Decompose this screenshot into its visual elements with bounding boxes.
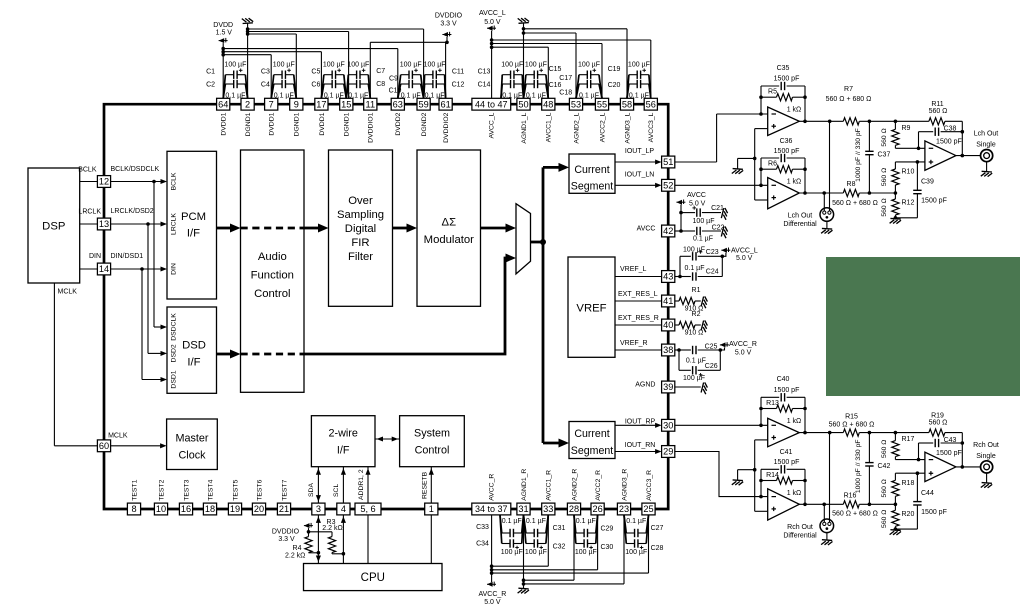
svg-text:100 µF: 100 µF — [323, 62, 345, 69]
label C26 — [705, 363, 718, 370]
wire DGND stem to pin 2 — [246, 24, 250, 99]
svg-text:100 µF: 100 µF — [628, 62, 650, 69]
svg-text:1500 pF: 1500 pF — [936, 139, 962, 146]
label BCLK — [78, 166, 97, 173]
op-amp U5 — [768, 489, 800, 520]
svg-text:C27: C27 — [651, 525, 664, 532]
svg-text:60: 60 — [99, 441, 109, 451]
wire DSDCLK branch — [154, 182, 167, 330]
svg-text:C14: C14 — [478, 82, 491, 89]
capacitors C9 C10 100µF/0.1µF (pins 63-59) — [398, 62, 424, 100]
svg-text:I/F: I/F — [187, 357, 200, 369]
svg-text:C29: C29 — [600, 526, 613, 533]
svg-text:AVCC: AVCC — [637, 225, 656, 232]
label EXT_RES_R — [618, 315, 659, 322]
svg-text:LRCLK/DSD2: LRCLK/DSD2 — [111, 208, 154, 215]
svg-text:Rch Out: Rch Out — [973, 442, 999, 449]
svg-text:C39: C39 — [921, 179, 934, 186]
svg-text:560 Ω: 560 Ω — [881, 440, 888, 458]
pin 1 (RESETB) — [425, 503, 438, 515]
wire VREF_R to pin 38 — [615, 349, 662, 351]
ground at R1 — [701, 296, 708, 308]
svg-text:C42: C42 — [878, 463, 891, 470]
connector Rch Out Differential — [820, 519, 834, 540]
capacitor C44 1500 pF — [895, 473, 921, 529]
capacitors C13 C14 100µF/0.1µF (pins 44to47-50) — [501, 62, 524, 100]
ground at pin 39 — [701, 382, 708, 394]
pin 3 (SDA) — [312, 503, 325, 515]
op-amp U1 — [768, 107, 800, 136]
wire AVCC_L bus to pin 55 — [492, 44, 602, 99]
svg-text:AVCC3_L: AVCC3_L — [648, 112, 655, 142]
power tap AVCC_R (C25) — [720, 342, 729, 350]
power tap DVDD — [219, 38, 228, 43]
pin label TEST7 — [281, 479, 288, 500]
resistor R9 560Ω — [892, 121, 925, 150]
pin label TEST5 — [232, 479, 239, 500]
svg-text:Single: Single — [976, 141, 996, 148]
svg-text:560 Ω + 680 Ω: 560 Ω + 680 Ω — [832, 511, 878, 518]
block 2-wire I/F — [311, 416, 375, 467]
wire plus node (Lch) — [895, 160, 925, 164]
svg-text:R10: R10 — [902, 168, 915, 175]
label C17 — [559, 75, 572, 82]
label 1500 pF (C44) — [921, 509, 947, 516]
svg-text:Single: Single — [976, 453, 996, 460]
svg-text:R13: R13 — [766, 400, 779, 407]
wire Lch single output — [956, 154, 981, 158]
label 1500 pF (C43) — [936, 450, 962, 457]
label C27 — [651, 525, 664, 532]
svg-text:IOUT_LN: IOUT_LN — [625, 171, 655, 178]
block VREF — [568, 257, 615, 357]
svg-text:IOUT_LP: IOUT_LP — [625, 148, 655, 155]
svg-text:RESETB: RESETB — [422, 471, 429, 499]
svg-text:Rch Out: Rch Out — [787, 524, 813, 531]
ground Rch differential — [821, 540, 832, 545]
capacitors C11 C12 100µF/0.1µF (pins 59-61) — [424, 62, 446, 100]
ground R12 (Lch) — [890, 218, 901, 223]
svg-text:560 Ω: 560 Ω — [881, 128, 888, 146]
wire AVCC_L bus to pin 48 — [492, 47, 549, 98]
capacitors C33 C34 0.1µF/100µF (pins 34to37-31) — [500, 515, 524, 556]
label 560 Ω + 680 Ω (R15) — [829, 421, 875, 428]
wire to Lch Current Segment (thick arrow) — [543, 163, 569, 172]
label C38 — [944, 125, 957, 132]
wire AGND_R bus to pin 23 — [524, 515, 625, 584]
svg-text:AVCC: AVCC — [687, 192, 706, 199]
wire FIR to DSM (thick arrow) — [393, 224, 418, 233]
wire DVDD bus to pin 63 — [223, 49, 398, 99]
label 1000 pF // 330 pF (C37) — [855, 128, 862, 182]
svg-text:1 kΩ: 1 kΩ — [787, 490, 802, 497]
wire Lch differential drops — [824, 121, 829, 211]
svg-text:AGND3_R: AGND3_R — [621, 469, 628, 501]
svg-text:3.3 V: 3.3 V — [278, 536, 295, 543]
label C43 — [944, 437, 957, 444]
wire IOUT_LP to pin 51 — [615, 159, 662, 164]
label 560 Ω (R12) — [881, 198, 888, 216]
svg-text:0.1 µF: 0.1 µF — [693, 236, 713, 243]
svg-text:MCLK: MCLK — [108, 432, 128, 439]
label R5 — [768, 89, 777, 96]
label C29 — [600, 526, 613, 533]
pin 55 (AVCC2_L) — [595, 98, 608, 110]
svg-text:AVCC_R: AVCC_R — [478, 591, 506, 598]
pin 9 (DGND1) — [290, 98, 303, 110]
svg-text:C28: C28 — [651, 545, 664, 552]
svg-text:DVDD: DVDD — [213, 22, 233, 29]
svg-text:R7: R7 — [844, 86, 853, 93]
label C35 — [777, 65, 790, 72]
pin 14 (DIN) — [97, 263, 110, 275]
svg-text:MCLK: MCLK — [58, 288, 78, 295]
label R15 — [845, 413, 858, 420]
svg-text:LRCLK: LRCLK — [171, 213, 178, 235]
label AVCC_L 5.0 V supply — [479, 10, 506, 26]
svg-text:SCL: SCL — [333, 484, 340, 497]
label AVCC_R 5.0 V (C25) — [729, 341, 757, 357]
svg-text:AVCC_R: AVCC_R — [729, 341, 757, 348]
pin label DVDDIO2 — [443, 112, 450, 142]
pin label AVCC2_R — [595, 470, 602, 501]
wire AVCC_R stem from pins 34 to 37 — [490, 515, 494, 582]
pin label AGND2_R — [571, 469, 578, 501]
svg-text:DSDCLK: DSDCLK — [171, 313, 178, 341]
svg-text:1500 pF: 1500 pF — [774, 76, 800, 83]
ground analog Lch (top) — [518, 18, 529, 23]
pin label TEST4 — [207, 479, 214, 500]
wire U5 inverting node — [759, 469, 763, 498]
svg-text:I/F: I/F — [337, 444, 350, 456]
svg-text:C44: C44 — [921, 490, 934, 497]
svg-text:Control: Control — [254, 288, 290, 300]
svg-text:DIN: DIN — [89, 253, 101, 260]
pin 17 (DVDD1) — [315, 98, 328, 110]
wire to Rch Current Segment (thick arrow) — [543, 439, 569, 448]
svg-text:R14: R14 — [766, 472, 779, 479]
capacitors C15 C16 100µF/0.1µF (pins 50-48) — [524, 62, 549, 100]
label IOUT_RP — [625, 418, 656, 425]
svg-text:61: 61 — [440, 99, 450, 109]
svg-text:1500 pF: 1500 pF — [774, 387, 800, 394]
svg-text:910 Ω: 910 Ω — [685, 329, 704, 336]
label DIN — [89, 253, 101, 260]
pin 11 (DVDDIO1) — [364, 98, 377, 110]
svg-text:560 Ω: 560 Ω — [881, 168, 888, 186]
svg-text:43: 43 — [663, 272, 673, 282]
label C32 — [553, 544, 566, 551]
pin 38 — [662, 344, 675, 356]
pin 29 — [662, 446, 675, 458]
wire AGND_L bus to pin 58 — [524, 29, 628, 99]
label DIN/DSD1 — [111, 253, 144, 260]
pin label AVCC1_L — [546, 112, 553, 142]
resistor R15 560Ω+680Ω — [843, 429, 859, 436]
pin label DGND1 — [344, 112, 351, 136]
label 1 kΩ (R14) — [787, 490, 802, 497]
block DSP — [28, 168, 80, 283]
pin label DVDDIO1 — [368, 112, 375, 142]
mux selector — [516, 204, 531, 274]
label 560 Ω (R20) — [881, 510, 888, 528]
pin label TEST1 — [131, 479, 138, 500]
label AGND at pin 39 — [635, 381, 655, 388]
svg-text:Lch Out: Lch Out — [974, 130, 999, 137]
svg-text:560 Ω: 560 Ω — [881, 479, 888, 497]
ground op-amp bias (Lch) — [732, 169, 743, 174]
wire Rch single output — [956, 465, 981, 469]
svg-text:AVCC2_R: AVCC2_R — [595, 470, 602, 501]
label R10 — [902, 168, 915, 175]
wire RESETB to CPU — [430, 515, 432, 564]
svg-text:1: 1 — [429, 504, 434, 514]
resistor R2 910Ω — [675, 321, 701, 328]
wire U2 inverting node — [759, 158, 763, 187]
svg-text:0.1 µF: 0.1 µF — [526, 518, 546, 525]
capacitor C42 1000pF//330pF — [865, 433, 873, 505]
svg-text:C37: C37 — [878, 151, 891, 158]
svg-text:C35: C35 — [777, 65, 790, 72]
power tap AVCC — [676, 200, 685, 205]
svg-text:C20: C20 — [608, 82, 621, 89]
pin 30 — [662, 419, 675, 431]
svg-text:59: 59 — [418, 99, 428, 109]
label R17 — [902, 436, 915, 443]
svg-text:560 Ω: 560 Ω — [881, 198, 888, 216]
svg-text:C6: C6 — [311, 82, 320, 89]
connector Lch Out Differential — [820, 208, 834, 229]
label 560 Ω (R19) — [929, 420, 948, 427]
pin label DVDD1 — [319, 112, 326, 135]
label R9 — [902, 125, 911, 132]
wire DGND bus to pin 15 — [248, 32, 349, 99]
label 560 Ω (R10) — [881, 168, 888, 186]
label IOUT_RN — [625, 442, 656, 449]
svg-text:0.1 µF: 0.1 µF — [685, 265, 705, 272]
label C24 — [706, 268, 719, 275]
label 1 kΩ (R5) — [787, 107, 802, 114]
label 2.2 kΩ (R4) — [285, 552, 305, 559]
label Lch Out Single — [974, 130, 999, 148]
svg-text:TEST5: TEST5 — [232, 479, 239, 500]
label R12 — [902, 199, 915, 206]
wire AVCC_R bus to pin 26 — [492, 515, 598, 570]
svg-text:C25: C25 — [705, 344, 718, 351]
pin label AVCC2_L — [599, 112, 606, 142]
label C22 — [712, 224, 725, 231]
wire pin 43 node — [675, 275, 682, 279]
capacitor C38 1500 pF — [919, 128, 965, 149]
op-amp U4 — [768, 418, 800, 447]
resistor R11 560Ω — [929, 118, 945, 125]
label Rch Out Single — [973, 442, 999, 460]
label C10 — [389, 87, 402, 94]
capacitors C5 C6 100µF/0.1µF (pins 17-15) — [321, 62, 346, 100]
svg-text:Differential: Differential — [783, 221, 817, 228]
pin 16 (TEST3) — [179, 503, 192, 515]
svg-text:2.2 kΩ: 2.2 kΩ — [322, 525, 342, 532]
svg-text:C15: C15 — [549, 66, 562, 73]
svg-text:28: 28 — [569, 504, 579, 514]
svg-text:Current: Current — [574, 428, 609, 440]
pin 19 (TEST5) — [228, 503, 241, 515]
svg-text:C3: C3 — [261, 69, 270, 76]
label 100 µF (C23) — [683, 247, 705, 254]
connector Lch Out Single — [981, 150, 993, 172]
wire PCM to AFC (thick arrow) — [217, 224, 241, 233]
label C44 — [921, 490, 934, 497]
ground analog Rch (bottom) — [518, 588, 529, 593]
svg-text:C10: C10 — [389, 87, 402, 94]
svg-text:AGND2_R: AGND2_R — [571, 469, 578, 501]
wire MCLK from DSP to pin 60 — [54, 283, 97, 446]
wire DGND bus to pin 59 — [248, 29, 424, 98]
svg-text:Segment: Segment — [571, 445, 613, 457]
label 560 Ω + 680 Ω (R7) — [826, 96, 872, 103]
pin label DGND2 — [421, 112, 428, 136]
svg-text:5.0 V: 5.0 V — [735, 349, 752, 356]
svg-text:25: 25 — [643, 504, 653, 514]
wire pin 52 to op-amp U2 — [675, 184, 768, 186]
svg-text:DVDD1: DVDD1 — [319, 112, 326, 135]
label 1500 pF (C39) — [921, 197, 947, 204]
svg-text:CPU: CPU — [361, 572, 385, 584]
svg-text:12: 12 — [99, 177, 109, 187]
wire DSD path to mux (thick) — [304, 254, 516, 355]
svg-text:VREF_L: VREF_L — [620, 266, 647, 273]
svg-text:C2: C2 — [206, 82, 215, 89]
label 0.1 µF (C24) — [685, 265, 705, 272]
svg-text:C16: C16 — [549, 82, 562, 89]
svg-text:560 Ω + 680 Ω: 560 Ω + 680 Ω — [829, 421, 875, 428]
svg-text:21: 21 — [279, 504, 289, 514]
svg-text:15: 15 — [341, 99, 351, 109]
pin 43 — [662, 271, 675, 283]
svg-text:40: 40 — [663, 320, 673, 330]
label AVCC at pin 42 — [637, 225, 656, 232]
svg-text:AVCC3_R: AVCC3_R — [646, 470, 653, 501]
ground digital (top) — [242, 18, 253, 23]
resistor R6 1 kΩ — [761, 166, 805, 173]
svg-text:5, 6: 5, 6 — [360, 504, 375, 514]
capacitor C39 1500 pF — [895, 162, 921, 218]
wire C35/R5 to output — [803, 86, 807, 123]
svg-text:9: 9 — [294, 99, 299, 109]
wire DSM to mux (thick arrow) — [481, 224, 517, 233]
svg-text:DIN/DSD1: DIN/DSD1 — [111, 253, 144, 260]
label C11 — [452, 69, 464, 76]
label C34 — [476, 541, 489, 548]
svg-text:AVCC_L: AVCC_L — [731, 247, 758, 254]
ground Rch single — [981, 483, 992, 488]
svg-text:5.0 V: 5.0 V — [736, 255, 753, 262]
svg-text:Function: Function — [251, 270, 294, 282]
label C2 — [206, 82, 215, 89]
svg-text:C24: C24 — [706, 268, 719, 275]
pin 15 (DGND1) — [340, 98, 353, 110]
wire plus node (Rch) — [895, 471, 925, 475]
svg-text:8: 8 — [131, 504, 136, 514]
svg-text:R2: R2 — [692, 311, 701, 318]
svg-text:ΔΣ: ΔΣ — [442, 217, 457, 229]
label BCLK/DSDCLK — [111, 166, 160, 173]
label R20 — [902, 511, 915, 518]
label R8 — [847, 181, 856, 188]
svg-text:1.5 V: 1.5 V — [216, 30, 233, 37]
svg-text:560 Ω + 680 Ω: 560 Ω + 680 Ω — [826, 96, 872, 103]
label C7 — [376, 68, 385, 75]
wire DVDDIO bus to pin 11 — [370, 42, 447, 98]
svg-text:100 µF: 100 µF — [347, 62, 369, 69]
label C36 — [780, 138, 793, 145]
svg-text:AVCC1_R: AVCC1_R — [546, 470, 553, 501]
block Current Segment Rch — [569, 422, 615, 459]
pin label DGND1 — [245, 112, 252, 136]
block CPU — [304, 564, 443, 591]
pin label DSD2 (DSD) — [171, 344, 178, 362]
capacitor C35 1500 pF — [761, 82, 805, 90]
label R18 — [902, 480, 915, 487]
svg-text:Audio: Audio — [258, 251, 287, 263]
svg-text:10: 10 — [156, 504, 166, 514]
resistor R8 560Ω+680Ω — [843, 189, 859, 196]
svg-text:1 kΩ: 1 kΩ — [787, 418, 802, 425]
svg-text:C19: C19 — [608, 66, 621, 73]
svg-text:Lch Out: Lch Out — [788, 213, 813, 220]
ground at R2 — [701, 320, 708, 332]
wire Lch bottom rail — [799, 191, 897, 195]
power tap DVDDIO — [442, 32, 451, 37]
label Lch Out Differential — [783, 213, 817, 229]
wire Rch bottom rail — [799, 503, 897, 507]
wire LRCLK/DSD2 to PCM I/F — [111, 221, 167, 226]
svg-text:1000 pF // 330 pF: 1000 pF // 330 pF — [855, 128, 862, 182]
label C4 — [261, 82, 270, 89]
capacitors C29 C30 0.1µF/100µF (pins 28-26) — [574, 515, 598, 556]
wire AVCC_L stem to pins 44 to 47 — [490, 31, 494, 99]
pin label SDA — [308, 483, 315, 497]
svg-text:C34: C34 — [476, 541, 489, 548]
label 560 Ω + 680 Ω (R16) — [832, 511, 878, 518]
wire pin 29 to op-amp U5 — [675, 452, 768, 497]
block System Control — [400, 416, 465, 467]
pin 63 (DVDD2) — [391, 98, 404, 110]
svg-text:100 µF: 100 µF — [501, 549, 523, 556]
label R19 — [931, 412, 944, 419]
svg-text:100 µF: 100 µF — [501, 62, 523, 69]
svg-text:100 µF: 100 µF — [224, 62, 246, 69]
svg-text:C30: C30 — [600, 544, 613, 551]
pin 39 — [662, 381, 675, 393]
pin label SCL — [333, 484, 340, 497]
resistor R10 560Ω — [892, 162, 899, 193]
label C25 — [705, 344, 718, 351]
pin 13 (LRCLK) — [97, 218, 110, 230]
svg-text:100 µF: 100 µF — [575, 549, 597, 556]
resistor R5 1 kΩ — [761, 94, 805, 101]
svg-text:TEST4: TEST4 — [207, 479, 214, 500]
svg-text:560 Ω: 560 Ω — [929, 108, 948, 115]
svg-text:C8: C8 — [376, 81, 385, 88]
capacitor C22 0.1µF — [681, 227, 721, 235]
svg-text:0.1 µF: 0.1 µF — [576, 518, 596, 525]
label 100 µF (C26) — [683, 373, 705, 382]
svg-text:FIR: FIR — [351, 237, 369, 249]
pin 5, 6 (ADDR1, 2) — [355, 503, 381, 515]
wire VREF_L to pin 43 — [615, 276, 662, 278]
svg-text:1000 pF // 330 pF: 1000 pF // 330 pF — [855, 439, 862, 493]
